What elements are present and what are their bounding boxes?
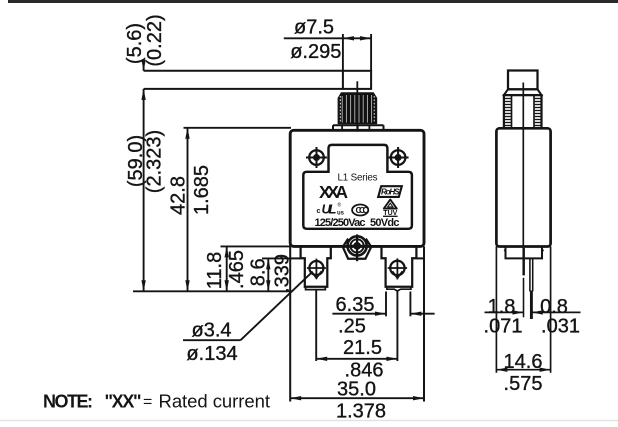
arrow 6.35 left (points right) (375, 312, 386, 316)
front view centerline (356, 81, 358, 131)
svg-text:"XX": "XX" (105, 392, 142, 412)
left body edge extension (289, 246, 291, 401)
dim 8.6 extension (262, 257, 290, 259)
reference line button top (144, 88, 343, 90)
dim 6.35 line right part (410, 313, 434, 315)
dim 8.6 line (267, 258, 269, 291)
arrow 1.8 (points right) (513, 310, 524, 314)
dim 42.8 extension (184, 127, 292, 129)
left terminal block (301, 246, 331, 286)
svg-text:.031: .031 (541, 316, 580, 338)
svg-text:RoHS: RoHS (381, 188, 400, 197)
svg-text:.339: .339 (272, 254, 294, 293)
reference line popped top (144, 70, 343, 72)
left terminal screw (307, 259, 326, 280)
page bottom faint line (0, 420, 618, 422)
dim 14.6 extensions (495, 247, 497, 373)
right step under body (416, 257, 424, 259)
svg-text:(0.22): (0.22) (144, 14, 166, 66)
arrow 14.6 right (540, 368, 551, 372)
side threaded bushing (504, 95, 542, 128)
arrow 8.6 bottom (266, 280, 270, 291)
side blade 0.8 (529, 258, 531, 291)
dia 3.4 fraction bar (183, 339, 241, 341)
svg-text:XXA: XXA (319, 182, 348, 202)
svg-text:ø.134: ø.134 (186, 343, 237, 365)
arrow 35 left (290, 396, 301, 400)
side centerline (522, 83, 524, 276)
arrow 6.35 right (points left) (410, 312, 421, 316)
arrow 42.8 bottom (down) (185, 280, 189, 291)
center post bushing circles (348, 236, 367, 255)
dim 35.0 line (290, 397, 424, 399)
dim 11.8 line (226, 246, 228, 291)
svg-text:11.8: 11.8 (204, 252, 226, 289)
button knurl stripes (340, 95, 374, 123)
dim 0.8 extension (530, 291, 533, 319)
button popped ghost rectangle (343, 71, 371, 89)
arrow 0.8 (points left) (532, 310, 543, 314)
dim 14.6 line (496, 369, 550, 371)
svg-text:14.6: 14.6 (504, 351, 543, 373)
svg-text:ø.295: ø.295 (290, 41, 341, 63)
svg-text:.25: .25 (338, 316, 366, 338)
svg-text:ø3.4: ø3.4 (191, 319, 231, 341)
front view body (290, 130, 424, 246)
arrow 14.6 left (496, 368, 507, 372)
arrow dia7.5 right (360, 36, 371, 40)
right body edge extension (423, 246, 425, 401)
dim 1.8 bar (485, 311, 524, 313)
side blade 1.8 (523, 248, 525, 275)
dim 7.5 extension lines (342, 34, 344, 71)
RoHS box (378, 186, 402, 197)
side button (508, 71, 538, 90)
dia 3.4 leader (241, 273, 312, 341)
label plate outline (303, 145, 412, 229)
svg-text:Rated current: Rated current (159, 391, 271, 412)
svg-text:.465: .465 (226, 250, 248, 289)
dim 42.8 line (187, 128, 189, 291)
arrow 21.5 left (316, 357, 327, 361)
svg-text:®: ® (338, 202, 342, 209)
arrow 8.6 top (266, 258, 270, 269)
bottom reference baseline (133, 290, 292, 292)
svg-text:21.5: 21.5 (343, 337, 382, 359)
svg-text:us: us (337, 211, 345, 217)
side button flange (504, 89, 542, 95)
arrow 11.8 top (225, 246, 229, 257)
arrow 21.5 right (386, 357, 397, 361)
dim 0.8 bar (532, 311, 581, 313)
svg-text:8.6: 8.6 (248, 258, 270, 286)
svg-text:1.685: 1.685 (191, 165, 213, 215)
right terminal block (382, 246, 417, 286)
bushing threads (505, 99, 541, 126)
svg-text:UL: UL (322, 202, 337, 217)
svg-text:125/250Vac: 125/250Vac (315, 217, 366, 229)
side bottom step (506, 247, 543, 259)
arrow 59 top (up) (141, 89, 145, 100)
TUV mark (383, 200, 398, 217)
svg-text:ø7.5: ø7.5 (294, 16, 334, 38)
mounting screw left (306, 147, 327, 168)
CCC mark (352, 205, 368, 216)
svg-text:.071: .071 (484, 316, 523, 338)
svg-text:.575: .575 (504, 373, 543, 395)
svg-text:35.0: 35.0 (337, 379, 376, 401)
svg-text:c: c (317, 208, 321, 215)
dim 5.6 upper arrow line (143, 61, 145, 71)
page top border (8, 0, 618, 3)
center post cross (356, 234, 358, 261)
left terminal foot (306, 287, 326, 290)
svg-text:42.8: 42.8 (168, 176, 190, 215)
arrow 11.8 bottom (225, 280, 229, 291)
right terminal foot notch (387, 287, 411, 291)
mounting screw right (388, 147, 409, 168)
dim 6.35 extension lines (385, 292, 387, 317)
dim 7.5 line (284, 37, 371, 39)
center mounting post hex (343, 239, 348, 247)
dim 6.35 line left part (332, 313, 386, 315)
arrow 59 bottom (down) (141, 280, 145, 291)
UL recognized mark (317, 202, 345, 217)
arrow 5.6 top (down) (141, 60, 145, 71)
svg-text:=: = (143, 394, 152, 411)
dim 1.8 extension (523, 278, 525, 318)
left terminal blade (315, 290, 317, 361)
svg-text:50Vdc: 50Vdc (370, 217, 400, 229)
svg-text:1.378: 1.378 (336, 400, 386, 422)
dim 59.0 line (143, 89, 145, 291)
svg-text:NOTE:: NOTE: (43, 392, 93, 412)
svg-text:(2.323): (2.323) (144, 130, 166, 193)
dim 11.8 extension (221, 245, 291, 247)
right terminal screw (388, 258, 407, 279)
svg-text:TÜV: TÜV (383, 208, 397, 217)
svg-text:6.35: 6.35 (336, 294, 375, 316)
svg-text:(5.6): (5.6) (124, 23, 146, 64)
left step under body (290, 257, 300, 259)
dim 21.5 line (316, 358, 397, 360)
right terminal blade (396, 291, 398, 361)
arrow 42.8 top (up) (185, 128, 189, 139)
arrow dia7.5 left (343, 36, 354, 40)
button flange (333, 124, 384, 126)
knurled button (black) (339, 93, 377, 123)
side body (496, 128, 550, 246)
arrow 35 right (413, 396, 424, 400)
